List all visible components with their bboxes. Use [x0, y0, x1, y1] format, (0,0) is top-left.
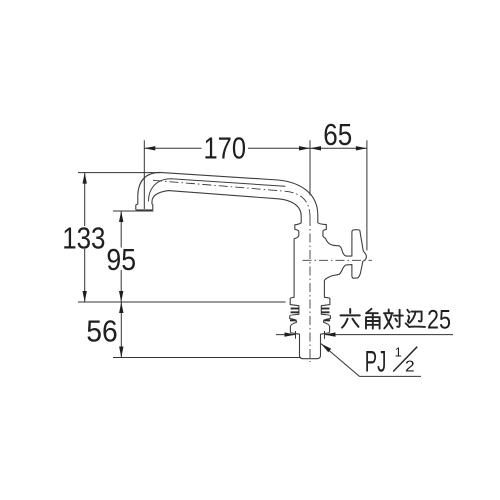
arrow 56 bottom [119, 347, 123, 358]
kanji hen (side) [406, 310, 425, 327]
dim line 170 [144, 147, 310, 149]
svg-text:PJ: PJ [365, 346, 387, 379]
arrowheads [83, 146, 367, 357]
arrow 65 left [310, 146, 321, 150]
svg-text:56: 56 [86, 314, 118, 348]
arrow 65 right [356, 146, 367, 150]
centerline spout tube [153, 180, 372, 362]
arrow 170 right [299, 146, 310, 150]
mounting surface line [78, 301, 286, 303]
kanji roku (six) [341, 309, 360, 328]
svg-text:95: 95 [106, 243, 136, 277]
svg-text:170: 170 [204, 131, 247, 165]
dim line 95 [120, 211, 122, 302]
extension line outlet bottom [113, 210, 154, 212]
thread bars left [290, 309, 299, 321]
hex tick left [295, 331, 297, 339]
arrow 56 top [119, 302, 123, 313]
arrow 133 bottom [83, 291, 87, 302]
bottom line thread end [113, 357, 301, 359]
svg-text:2: 2 [405, 359, 415, 376]
leader line PJ [321, 344, 421, 377]
svg-text:133: 133 [62, 222, 105, 256]
arrow 170 left [144, 146, 155, 150]
dim line 133 [84, 173, 86, 302]
extension line handle tip [366, 140, 368, 250]
arrow 133 top [83, 173, 87, 184]
fraction slash [393, 347, 417, 372]
extension line pipe axis top [309, 140, 311, 195]
kanji tai (opposite) [384, 310, 403, 329]
dim line 56 [120, 302, 122, 358]
spout reflection line [149, 179, 286, 201]
kanji kaku (corner) [366, 309, 380, 329]
svg-text:25: 25 [427, 305, 451, 335]
arrow hex right [325, 332, 336, 336]
dim line hex left [276, 334, 296, 336]
dim line hex right [325, 334, 454, 336]
arrow PJ leader [321, 344, 331, 353]
arrow hex left [285, 332, 296, 336]
svg-text:65: 65 [323, 118, 352, 152]
extension line top of spout [78, 172, 160, 174]
thread bars right [321, 309, 330, 321]
svg-text:1: 1 [395, 346, 402, 360]
arrow 95 top [119, 211, 123, 222]
centerline valve axis [303, 259, 373, 261]
hex tick right [324, 331, 326, 339]
centerline vertical body [309, 217, 311, 362]
faucet body outline [136, 172, 367, 358]
extension line outlet center [143, 140, 145, 209]
dim line 65 [310, 147, 367, 149]
arrow 95 bottom [119, 291, 123, 302]
